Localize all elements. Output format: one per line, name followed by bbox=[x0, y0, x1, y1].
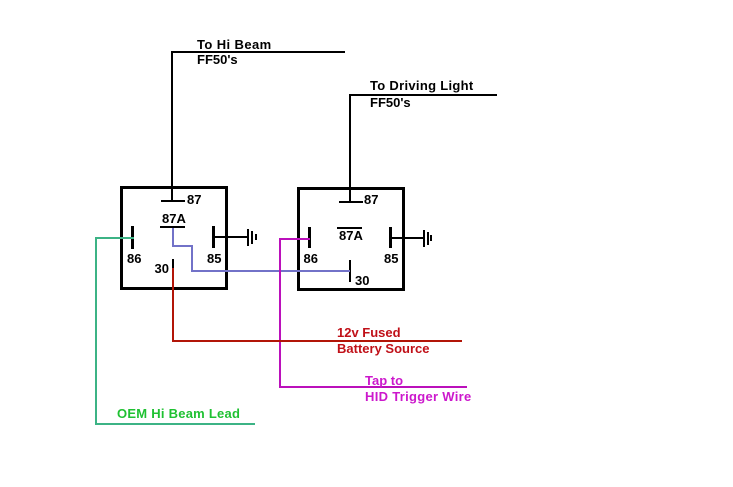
relay K2 body bbox=[297, 187, 405, 291]
relay K1 body bbox=[120, 186, 228, 290]
label: FF50's (right) bbox=[370, 96, 411, 109]
wire: To Driving Light feed line bbox=[349, 94, 497, 96]
pin label 87 (K2) bbox=[364, 193, 378, 206]
wire: 12v fused battery source (red) bbox=[0, 0, 1, 1]
pin label 87 (K1) bbox=[187, 193, 201, 206]
wire: relay K2 pin 87 stem bbox=[349, 96, 351, 202]
pin label 87A (K1) bbox=[162, 212, 186, 225]
wire: OEM hi beam lead (green) bbox=[0, 0, 1, 1]
label: OEM Hi Beam Lead (green) bbox=[117, 407, 240, 420]
ground symbol (K2) bbox=[0, 0, 1, 1]
label: FF50's (left) bbox=[197, 53, 238, 66]
wire: 87A link K1 to K2 pin 30 (purple) bbox=[0, 0, 1, 1]
pin label 85 (K2) bbox=[384, 252, 398, 265]
pin 87 bar (K1) bbox=[161, 200, 185, 202]
pin label 86 (K2) bbox=[304, 252, 318, 265]
pin 30 bar (K1) bbox=[172, 259, 174, 268]
pin 30 bar (K2) bbox=[349, 260, 351, 282]
pin 86 bar (K2) bbox=[308, 227, 311, 249]
pin 87A overline bar (K2) bbox=[337, 227, 362, 229]
label: 12v Fused bbox=[337, 326, 401, 339]
wire: relay K1 pin 87 stem bbox=[171, 53, 173, 202]
wire: To Hi Beam feed line bbox=[171, 51, 345, 53]
pin label 85 (K1) bbox=[207, 252, 221, 265]
label: To Driving Light bbox=[370, 79, 474, 92]
pin 87A bar (K1) bbox=[160, 226, 185, 229]
pin label 86 (K1) bbox=[127, 252, 141, 265]
pin 86 bar (K1) bbox=[131, 226, 134, 249]
wire: pin 85 to ground (K2) bbox=[392, 237, 424, 239]
wire: pin 85 to ground (K1) bbox=[215, 236, 247, 238]
label: HID Trigger Wire bbox=[365, 390, 472, 403]
pin 87 bar (K2) bbox=[339, 201, 363, 203]
pin 85 bar (K2) bbox=[389, 227, 392, 249]
pin label 30 (K2) bbox=[355, 274, 369, 287]
ground symbol (K1) bbox=[0, 0, 1, 1]
pin label 30 (K1) bbox=[155, 262, 169, 275]
label: To Hi Beam bbox=[197, 38, 272, 51]
pin 85 bar (K1) bbox=[212, 226, 215, 248]
label: Tap to bbox=[365, 374, 403, 387]
pin label 87A (K2) bbox=[339, 229, 363, 242]
label: Battery Source bbox=[337, 342, 429, 355]
wire: tap to HID trigger (magenta) bbox=[0, 0, 1, 1]
